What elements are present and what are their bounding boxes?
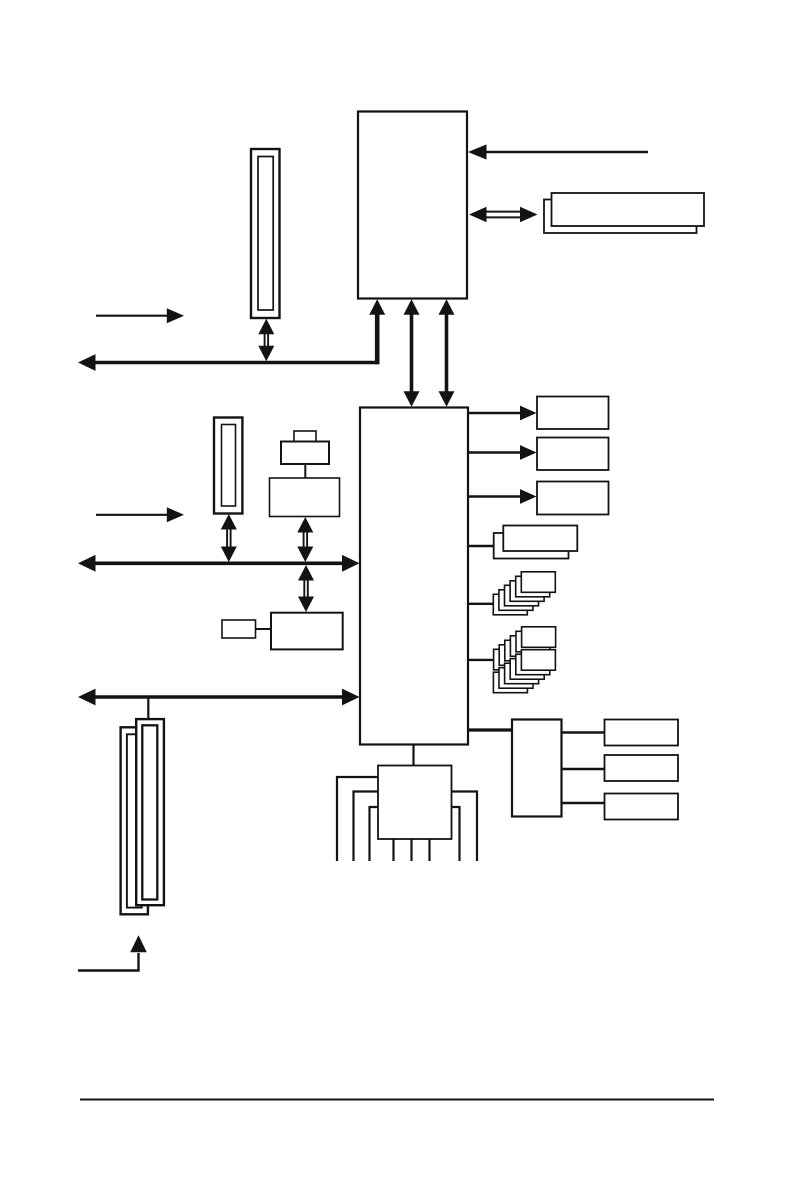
block USB port cascade group 2 (upper row) bbox=[494, 627, 556, 670]
wire: Super I/O pin bottom 1 bbox=[392, 839, 394, 861]
bidirectional arrow: bus 2 to LAN controller bbox=[298, 565, 314, 612]
wire: transformer to LAN controller bbox=[256, 628, 272, 630]
block peripheral box 1 bbox=[537, 397, 609, 430]
bus: graphics bus (horizontal, left arrowhead, rises into CPU) bbox=[78, 299, 385, 371]
wire: chipset to USB group 2 bbox=[467, 659, 494, 661]
block LAN transformer (small box) bbox=[222, 620, 256, 638]
block peripheral box 3 bbox=[537, 482, 609, 515]
arrow: chipset to peripheral box 3 bbox=[467, 489, 537, 504]
wire: BIOS to LPC device 1 bbox=[562, 731, 606, 733]
block LPC device 2 bbox=[605, 755, 679, 781]
wire: chipset to IDE connector pair bbox=[467, 545, 495, 547]
block LPC device 3 bbox=[605, 794, 679, 820]
block USB port cascade group 1 bbox=[493, 572, 555, 615]
bidirectional arrow: small slot to bus 2 bbox=[221, 514, 237, 562]
connector slot (middle left small slot) bbox=[214, 418, 242, 514]
bidirectional arrow: slot to graphics bus bbox=[258, 319, 274, 361]
bus: bus 3 (double headed horizontal) bbox=[78, 689, 360, 706]
wire: crystal to codec bbox=[304, 464, 306, 479]
horizontal rule (page footer) bbox=[80, 1099, 714, 1101]
wire: Super I/O pin bottom 2 bbox=[410, 839, 412, 861]
wire: BIOS to LPC device 3 bbox=[562, 802, 606, 804]
bidirectional arrow: CPU to chipset (right) bbox=[439, 299, 455, 406]
wire: clock input arrow into CPU right side bbox=[468, 144, 648, 159]
block clock generator small top box bbox=[294, 431, 316, 442]
block USB port cascade group 2 (lower row) bbox=[493, 650, 555, 693]
bus: bus 2 (double headed horizontal) bbox=[78, 555, 360, 572]
connector PCI slot (front) bbox=[136, 719, 164, 905]
block BIOS bbox=[512, 720, 562, 817]
connector slot (top left graphics slot), outer body bbox=[251, 149, 280, 318]
wire: Super I/O pin left 3 bbox=[370, 807, 379, 861]
wire: Super I/O pin right 2 bbox=[452, 807, 460, 861]
block codec bbox=[270, 478, 340, 517]
bidirectional arrow: CPU to memory bus bbox=[469, 207, 538, 222]
bidirectional arrow: CPU to chipset (left) bbox=[404, 299, 420, 406]
connector PCI slot (back) bbox=[121, 727, 148, 914]
block LAN controller bbox=[271, 613, 343, 650]
block peripheral box 2 bbox=[537, 438, 609, 471]
block CPU bbox=[358, 112, 467, 299]
arrow: small input arrow (top left) bbox=[96, 308, 184, 323]
block IDE connector stack (front) bbox=[503, 526, 577, 552]
bidirectional arrow: codec to bus 2 bbox=[297, 517, 313, 562]
arrow: small input arrow (middle left) bbox=[96, 507, 184, 522]
arrow: bottom left L-shaped arrow up to PCI slots bbox=[78, 935, 147, 970]
arrow: chipset to peripheral box 2 bbox=[467, 445, 537, 460]
wire: Super I/O pin right 1 bbox=[452, 792, 478, 862]
wire: bus 3 drop to PCI slots bbox=[147, 698, 149, 720]
arrow: chipset to peripheral box 1 bbox=[467, 406, 537, 421]
wire: chipset to USB group 1 bbox=[467, 603, 494, 605]
block memory DIMM stack (back) bbox=[544, 200, 697, 234]
block crystal bbox=[281, 442, 329, 465]
wire: chipset to BIOS (thick) bbox=[467, 728, 513, 731]
wire: Super I/O pin left 1 bbox=[337, 777, 378, 861]
block LPC device 1 bbox=[605, 720, 679, 746]
block IDE connector stack (back) bbox=[494, 533, 569, 559]
block Super I/O bbox=[378, 766, 452, 840]
wire: BIOS to LPC device 2 bbox=[562, 768, 606, 770]
block memory DIMM stack (front) bbox=[552, 193, 705, 226]
block chipset bbox=[360, 408, 468, 745]
wire: Super I/O pin bottom 3 bbox=[428, 839, 430, 861]
wire: Super I/O pin left 2 bbox=[354, 792, 379, 862]
wire: chipset to Super I/O bbox=[412, 745, 414, 767]
